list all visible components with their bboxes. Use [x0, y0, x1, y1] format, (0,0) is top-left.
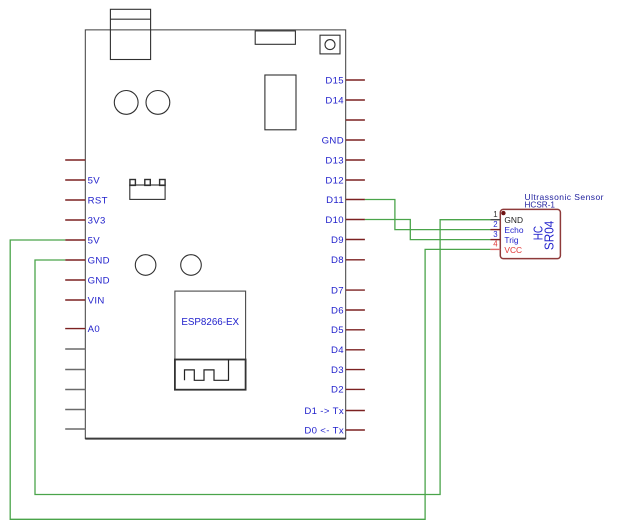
svg-text:D6: D6	[331, 305, 344, 316]
svg-text:D4: D4	[331, 345, 344, 356]
svg-text:D5: D5	[331, 325, 344, 336]
svg-text:D12: D12	[325, 175, 344, 186]
svg-text:3: 3	[493, 230, 497, 239]
svg-text:GND: GND	[88, 275, 110, 286]
svg-text:D1 -> Tx: D1 -> Tx	[304, 406, 344, 417]
svg-text:D8: D8	[331, 255, 344, 266]
svg-text:GND: GND	[88, 255, 110, 266]
svg-text:VCC: VCC	[504, 245, 522, 255]
svg-text:RST: RST	[88, 195, 108, 206]
svg-text:D7: D7	[331, 285, 344, 296]
svg-text:HCSR-1: HCSR-1	[525, 200, 556, 209]
svg-text:D15: D15	[325, 75, 344, 86]
svg-text:1: 1	[493, 210, 497, 219]
svg-text:GND: GND	[504, 215, 523, 225]
svg-text:D11: D11	[326, 195, 344, 206]
svg-text:VIN: VIN	[88, 295, 105, 306]
svg-text:D14: D14	[325, 95, 344, 106]
svg-text:3V3: 3V3	[88, 215, 106, 226]
svg-text:D2: D2	[331, 385, 344, 396]
svg-text:5V: 5V	[88, 175, 101, 186]
svg-text:A0: A0	[88, 324, 100, 335]
svg-text:4: 4	[493, 240, 498, 249]
svg-text:GND: GND	[322, 135, 344, 146]
svg-text:ESP8266-EX: ESP8266-EX	[181, 317, 239, 328]
svg-text:5V: 5V	[88, 235, 101, 246]
svg-text:Echo: Echo	[504, 225, 523, 235]
svg-text:SR04: SR04	[542, 220, 556, 250]
svg-text:D10: D10	[325, 215, 344, 226]
svg-text:2: 2	[493, 220, 497, 229]
svg-text:D9: D9	[331, 235, 344, 246]
svg-text:D0 <- Tx: D0 <- Tx	[304, 425, 344, 436]
svg-text:D13: D13	[325, 155, 344, 166]
svg-text:Trig: Trig	[504, 235, 518, 245]
svg-text:D3: D3	[331, 365, 344, 376]
